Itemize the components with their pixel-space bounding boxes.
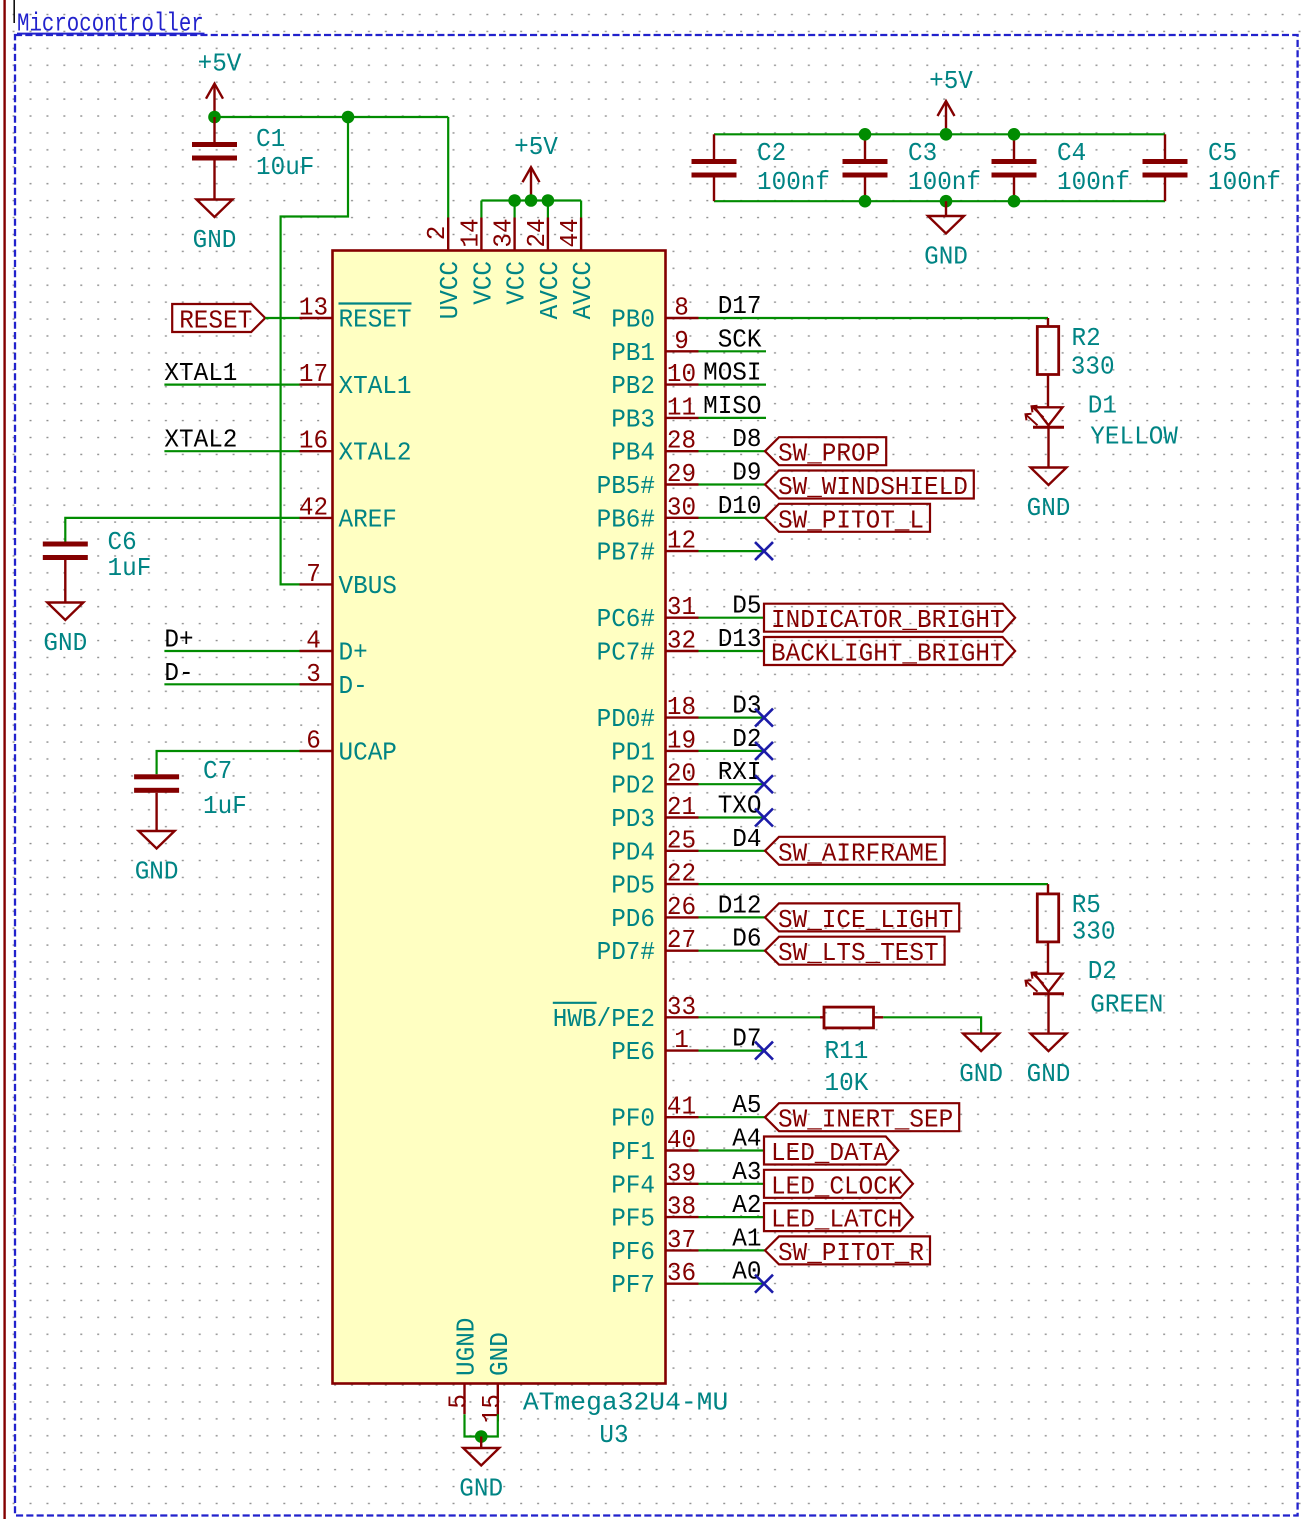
svg-text:100nf: 100nf: [1208, 167, 1281, 197]
R11 left lead: [820, 1016, 824, 1018]
svg-text:28: 28: [667, 426, 696, 456]
svg-text:18: 18: [667, 692, 696, 722]
global label LED_CLOCK: [764, 1170, 913, 1202]
svg-text:10uF: 10uF: [256, 152, 314, 182]
svg-text:PD1: PD1: [611, 737, 655, 767]
wire PB0/D17 to R2: [699, 317, 1049, 319]
pin 9 PB1 (right): [666, 350, 699, 352]
microcontroller U3 ATmega32U4-MU body: [333, 251, 666, 1384]
svg-text:9: 9: [674, 326, 689, 356]
pin 21 PD3 (right): [666, 816, 699, 818]
svg-text:PB3: PB3: [611, 404, 655, 434]
svg-text:D1: D1: [1088, 391, 1117, 421]
svg-text:+5V: +5V: [198, 49, 242, 79]
svg-text:AREF: AREF: [339, 504, 397, 534]
svg-text:1uF: 1uF: [203, 791, 247, 821]
global label INDICATOR_BRIGHT: [764, 604, 1015, 636]
svg-text:D10: D10: [718, 491, 762, 521]
global label SW_PITOT_R: [765, 1236, 930, 1268]
C5 bottom lead: [1164, 178, 1166, 202]
junction bottom rail: [859, 195, 872, 208]
svg-text:SW_INERT_SEP: SW_INERT_SEP: [778, 1105, 953, 1135]
junction AVCC 24: [542, 194, 555, 207]
C3 top lead: [864, 134, 866, 159]
svg-text:HWB/PE2: HWB/PE2: [553, 1004, 655, 1034]
svg-text:25: 25: [667, 825, 696, 855]
C3 bottom lead: [864, 178, 866, 202]
svg-text:38: 38: [667, 1192, 696, 1222]
wire UCAP to C7: [157, 751, 300, 774]
svg-text:29: 29: [667, 459, 696, 489]
no-connect PF7: [755, 1275, 773, 1293]
svg-text:40: 40: [667, 1125, 696, 1155]
wire top rail C2-C5: [714, 133, 1165, 135]
wire D9: [699, 483, 767, 485]
no-connect PD0: [755, 709, 773, 727]
wire MISO: [699, 417, 767, 419]
C4 bottom lead: [1013, 178, 1015, 202]
wire stub to top pin at x=514.6: [513, 201, 515, 218]
svg-text:PD0#: PD0#: [597, 704, 655, 734]
svg-text:PF7: PF7: [611, 1270, 655, 1300]
svg-text:PC7#: PC7#: [597, 638, 655, 668]
svg-text:XTAL2: XTAL2: [164, 425, 237, 455]
svg-text:D+: D+: [339, 638, 368, 668]
svg-text:C7: C7: [203, 756, 232, 786]
svg-text:7: 7: [306, 559, 321, 589]
svg-text:24: 24: [522, 218, 552, 247]
svg-text:SW_PROP: SW_PROP: [778, 439, 880, 469]
wire D2 to ground: [1047, 994, 1049, 1034]
svg-text:12: 12: [667, 526, 696, 556]
svg-text:SW_PITOT_R: SW_PITOT_R: [778, 1238, 924, 1268]
svg-text:330: 330: [1071, 352, 1115, 382]
svg-text:2: 2: [422, 226, 452, 241]
pin 7 VBUS (left): [300, 583, 333, 585]
svg-text:A5: A5: [732, 1090, 761, 1120]
+5V: [514, 132, 558, 200]
svg-text:GND: GND: [1027, 1059, 1071, 1089]
pin 8 PB0 (right): [666, 317, 699, 319]
svg-text:5: 5: [444, 1394, 474, 1409]
pin 18 PD0# (right): [666, 716, 699, 718]
wire RXI: [699, 783, 765, 785]
junction bottom rail: [1008, 195, 1021, 208]
wire D4: [699, 850, 767, 852]
pin 16 XTAL2 (left): [300, 450, 333, 452]
ground below C6: [43, 560, 87, 658]
wire SCK: [699, 350, 767, 352]
svg-text:1uF: 1uF: [108, 553, 152, 583]
svg-text:GND: GND: [485, 1332, 515, 1376]
LED D2: [1026, 972, 1065, 994]
svg-text:C3: C3: [908, 138, 937, 168]
global label SW_ICE_LIGHT: [765, 903, 959, 935]
wire bottom rail C2-C5: [714, 200, 1165, 202]
svg-text:D+: D+: [164, 625, 193, 655]
svg-text:AVCC: AVCC: [535, 261, 565, 319]
svg-text:16: 16: [299, 426, 328, 456]
pin 36 PF7 (right): [666, 1282, 699, 1284]
svg-text:SW_WINDSHIELD: SW_WINDSHIELD: [778, 472, 968, 502]
ground below R11: [959, 1034, 1003, 1090]
svg-text:PB1: PB1: [611, 338, 655, 368]
junction top rail: [1008, 128, 1021, 141]
pin 14 VCC (top): [480, 218, 482, 251]
wire D13: [699, 650, 765, 652]
svg-text:D5: D5: [732, 591, 761, 621]
svg-text:26: 26: [667, 892, 696, 922]
no-connect PB7: [755, 542, 773, 560]
svg-text:15: 15: [477, 1394, 507, 1423]
junction +5V branch: [342, 111, 355, 124]
wire D8: [699, 450, 767, 452]
svg-text:PD4: PD4: [611, 837, 655, 867]
svg-text:D7: D7: [732, 1024, 761, 1054]
svg-text:VCC: VCC: [468, 261, 498, 305]
capacitor C4: [992, 159, 1037, 178]
pin 1 PE6 (right): [666, 1049, 699, 1051]
wire A1: [699, 1249, 767, 1251]
svg-text:GREEN: GREEN: [1090, 990, 1163, 1020]
capacitor C1: [192, 142, 237, 161]
pin 26 PD6 (right): [666, 916, 699, 918]
pin 33 HWB/PE2 (right): [666, 1016, 699, 1018]
global label SW_INERT_SEP: [765, 1103, 959, 1135]
svg-text:330: 330: [1072, 917, 1116, 947]
svg-text:PF6: PF6: [611, 1237, 655, 1267]
wire D+: [164, 650, 299, 652]
svg-text:SCK: SCK: [718, 324, 762, 354]
junction bottom rail: [940, 195, 953, 208]
global label SW_AIRFRAME: [765, 837, 945, 869]
svg-text:100nf: 100nf: [757, 167, 830, 197]
wire D7: [699, 1049, 765, 1051]
svg-text:D2: D2: [1088, 956, 1117, 986]
svg-text:6: 6: [306, 726, 321, 756]
svg-text:UVCC: UVCC: [435, 261, 465, 319]
pin 37 PF6 (right): [666, 1249, 699, 1251]
resistor R2: [1037, 327, 1058, 375]
no-connect PE6: [755, 1042, 773, 1060]
pin 25 PD4 (right): [666, 850, 699, 852]
resistor R11: [824, 1007, 874, 1028]
junction top rail: [859, 128, 872, 141]
svg-text:20: 20: [667, 759, 696, 789]
C2 bottom lead: [713, 178, 715, 202]
LED D1: [1026, 406, 1065, 428]
svg-text:GND: GND: [924, 242, 968, 272]
sheet frame left border: [3, 0, 5, 1519]
C2 top lead: [713, 134, 715, 159]
wire R2 to D1: [1047, 375, 1049, 408]
svg-text:D4: D4: [732, 824, 761, 854]
wire stub to top pin at x=581.1: [580, 201, 582, 218]
svg-text:GND: GND: [1027, 493, 1071, 523]
svg-text:C1: C1: [256, 124, 285, 154]
svg-text:PB7#: PB7#: [597, 538, 655, 568]
frame tick mark: [13, 0, 15, 23]
svg-text:42: 42: [299, 492, 328, 522]
wire D5: [699, 617, 765, 619]
ground below C1: [193, 161, 237, 256]
svg-text:PB5#: PB5#: [597, 471, 655, 501]
svg-text:D8: D8: [732, 424, 761, 454]
wire D-: [164, 683, 299, 685]
junction VCC 34: [508, 194, 521, 207]
svg-text:GND: GND: [135, 857, 179, 887]
global label SW_WINDSHIELD: [765, 471, 974, 503]
wire D3: [699, 716, 765, 718]
global label SW_PROP: [765, 437, 886, 469]
svg-text:PD2: PD2: [611, 771, 655, 801]
wire PB7: [699, 550, 765, 552]
R11 right lead: [874, 1016, 884, 1018]
svg-text:39: 39: [667, 1158, 696, 1188]
wire UGND/GND pins to junction: [465, 1414, 498, 1436]
svg-text:BACKLIGHT_BRIGHT: BACKLIGHT_BRIGHT: [771, 639, 1005, 669]
svg-text:11: 11: [667, 392, 696, 422]
svg-text:U3: U3: [599, 1420, 628, 1450]
C5 top lead: [1164, 134, 1166, 159]
svg-text:INDICATOR_BRIGHT: INDICATOR_BRIGHT: [771, 605, 1005, 635]
svg-text:41: 41: [667, 1092, 696, 1122]
wire D6: [699, 950, 767, 952]
pin 13 RESET (left): [300, 317, 333, 319]
capacitor C1 top lead: [213, 117, 215, 142]
svg-text:UCAP: UCAP: [339, 738, 397, 768]
capacitor C7: [134, 774, 179, 793]
svg-text:UGND: UGND: [452, 1318, 482, 1376]
wire D10: [699, 517, 767, 519]
no-connect PD1: [755, 742, 773, 760]
pin 32 PC7# (right): [666, 650, 699, 652]
wire A4: [699, 1149, 765, 1151]
ground below D1: [1027, 468, 1071, 524]
wire AREF to C6: [65, 518, 299, 542]
svg-text:VBUS: VBUS: [339, 571, 397, 601]
wire D1 to ground: [1047, 427, 1049, 467]
C4 top lead: [1013, 134, 1015, 159]
wire A0: [699, 1283, 765, 1285]
svg-text:D3: D3: [732, 691, 761, 721]
ground below C7: [135, 793, 179, 887]
svg-text:10K: 10K: [825, 1068, 869, 1098]
capacitor C6: [43, 542, 88, 561]
svg-text:19: 19: [667, 725, 696, 755]
svg-text:C4: C4: [1057, 138, 1086, 168]
wire RESET label to pin 13: [265, 317, 299, 319]
+5V: [198, 49, 242, 117]
pin 19 PD1 (right): [666, 750, 699, 752]
svg-text:PB0: PB0: [611, 305, 655, 335]
svg-text:RESET: RESET: [339, 305, 412, 335]
svg-text:SW_LTS_TEST: SW_LTS_TEST: [778, 938, 939, 968]
svg-text:D-: D-: [164, 658, 193, 688]
svg-text:C2: C2: [757, 138, 786, 168]
wire down to UVCC pin 2: [447, 117, 449, 218]
svg-text:A1: A1: [732, 1223, 761, 1253]
svg-text:D6: D6: [732, 924, 761, 954]
svg-text:32: 32: [667, 626, 696, 656]
ground below D2: [1027, 1034, 1071, 1090]
svg-text:VCC: VCC: [502, 261, 532, 305]
pin 38 PF5 (right): [666, 1216, 699, 1218]
svg-text:14: 14: [455, 218, 485, 247]
svg-text:PD6: PD6: [611, 904, 655, 934]
global label LED_DATA: [764, 1137, 898, 1169]
svg-text:36: 36: [667, 1258, 696, 1288]
svg-text:44: 44: [555, 218, 585, 247]
wire XTAL1: [164, 384, 299, 386]
svg-text:R11: R11: [825, 1036, 869, 1066]
pin 34 VCC (top): [513, 218, 515, 251]
capacitor C3: [843, 159, 888, 178]
pin 31 PC6# (right): [666, 617, 699, 619]
svg-text:PD3: PD3: [611, 804, 655, 834]
global label LED_LATCH: [764, 1203, 913, 1235]
pin 39 PF4 (right): [666, 1183, 699, 1185]
svg-text:27: 27: [667, 925, 696, 955]
wire D2: [699, 750, 765, 752]
no-connect PD3: [755, 809, 773, 827]
+5V: [929, 66, 973, 134]
global label BACKLIGHT_BRIGHT: [764, 637, 1015, 669]
svg-text:13: 13: [299, 293, 328, 323]
global label SW_PITOT_L: [765, 504, 930, 536]
pin 2 UVCC (top): [447, 218, 449, 251]
svg-text:PB6#: PB6#: [597, 504, 655, 534]
wire stub to top pin at x=481.4: [480, 201, 482, 218]
svg-text:4: 4: [306, 626, 321, 656]
svg-text:YELLOW: YELLOW: [1090, 422, 1178, 452]
pin 11 PB3 (right): [666, 417, 699, 419]
svg-text:A3: A3: [732, 1157, 761, 1187]
svg-text:AVCC: AVCC: [568, 261, 598, 319]
pin 27 PD7# (right): [666, 950, 699, 952]
wire +5V to VBUS pin 7: [281, 117, 348, 584]
svg-text:PE6: PE6: [611, 1037, 655, 1067]
svg-text:GND: GND: [43, 628, 87, 658]
svg-text:XTAL2: XTAL2: [339, 438, 412, 468]
wire R11 to ground: [883, 1017, 981, 1033]
svg-text:100nf: 100nf: [908, 167, 981, 197]
svg-text:3: 3: [306, 659, 321, 689]
svg-text:D9: D9: [732, 458, 761, 488]
pin 20 PD2 (right): [666, 783, 699, 785]
junction +5V stem: [525, 194, 538, 207]
svg-text:30: 30: [667, 492, 696, 522]
svg-text:A4: A4: [732, 1124, 761, 1154]
pin 3 D- (left): [300, 683, 333, 685]
svg-text:22: 22: [667, 859, 696, 889]
wire A5: [699, 1116, 767, 1118]
wire MOSI: [699, 384, 767, 386]
wire PD5 to R5: [699, 883, 1049, 885]
svg-text:PF5: PF5: [611, 1204, 655, 1234]
svg-text:RXI: RXI: [718, 757, 762, 787]
svg-text:R5: R5: [1072, 890, 1101, 920]
svg-text:D2: D2: [732, 724, 761, 754]
svg-text:8: 8: [674, 293, 689, 323]
wire +5V rail to pin 2: [215, 116, 449, 118]
svg-text:+5V: +5V: [514, 132, 558, 162]
svg-text:PB4: PB4: [611, 438, 655, 468]
R5 top lead: [1047, 884, 1049, 894]
svg-text:A0: A0: [732, 1257, 761, 1287]
svg-text:D-: D-: [339, 671, 368, 701]
capacitor C5: [1143, 159, 1188, 178]
pin 15 GND (bottom): [497, 1384, 499, 1415]
svg-text:10: 10: [667, 359, 696, 389]
pin 17 XTAL1 (left): [300, 383, 333, 385]
svg-text:RESET: RESET: [179, 306, 252, 336]
svg-text:XTAL1: XTAL1: [164, 358, 237, 388]
svg-text:PB2: PB2: [611, 371, 655, 401]
resistor R5: [1037, 894, 1058, 942]
svg-text:PF0: PF0: [611, 1104, 655, 1134]
R2 top lead: [1047, 318, 1049, 327]
pin 42 AREF (left): [300, 517, 333, 519]
svg-text:37: 37: [667, 1225, 696, 1255]
svg-text:PD7#: PD7#: [597, 937, 655, 967]
svg-text:LED_DATA: LED_DATA: [771, 1138, 888, 1168]
svg-text:100nf: 100nf: [1057, 167, 1130, 197]
pin 30 PB6# (right): [666, 517, 699, 519]
svg-text:PD5: PD5: [611, 871, 655, 901]
pin 28 PB4 (right): [666, 450, 699, 452]
pin 10 PB2 (right): [666, 383, 699, 385]
junction top rail: [940, 128, 953, 141]
pin 29 PB5# (right): [666, 483, 699, 485]
global label RESET: [172, 304, 265, 336]
svg-text:C5: C5: [1208, 138, 1237, 168]
pin 4 D+ (left): [300, 650, 333, 652]
global label SW_LTS_TEST: [765, 937, 945, 969]
svg-text:R2: R2: [1072, 323, 1101, 353]
wire XTAL2: [164, 450, 299, 452]
ground below decoupling caps: [924, 201, 968, 271]
wire stub to top pin at x=547.9: [547, 201, 549, 218]
svg-text:SW_PITOT_L: SW_PITOT_L: [778, 505, 924, 535]
pin 40 PF1 (right): [666, 1149, 699, 1151]
svg-text:SW_ICE_LIGHT: SW_ICE_LIGHT: [778, 905, 953, 935]
svg-text:33: 33: [667, 992, 696, 1022]
svg-text:21: 21: [667, 792, 696, 822]
svg-text:GND: GND: [459, 1474, 503, 1504]
junction at C1/+5V: [208, 111, 221, 124]
svg-text:34: 34: [489, 218, 519, 247]
svg-text:PC6#: PC6#: [597, 604, 655, 634]
pin 41 PF0 (right): [666, 1116, 699, 1118]
pin 44 AVCC (top): [580, 218, 582, 251]
wire A3: [699, 1183, 765, 1185]
svg-text:MOSI: MOSI: [703, 358, 761, 388]
ground below IC: [459, 1437, 503, 1504]
svg-text:LED_CLOCK: LED_CLOCK: [771, 1171, 903, 1201]
pin 22 PD5 (right): [666, 883, 699, 885]
svg-text:D17: D17: [718, 291, 762, 321]
wire +5V rail above VCC pins: [481, 199, 581, 201]
no-connect PD2: [755, 775, 773, 793]
pin 6 UCAP (left): [300, 750, 333, 752]
svg-text:GND: GND: [959, 1059, 1003, 1089]
pin 5 UGND (bottom): [463, 1384, 465, 1415]
capacitor C2: [692, 159, 737, 178]
svg-text:D13: D13: [718, 624, 762, 654]
svg-text:MISO: MISO: [703, 391, 761, 421]
wire TXO: [699, 816, 765, 818]
